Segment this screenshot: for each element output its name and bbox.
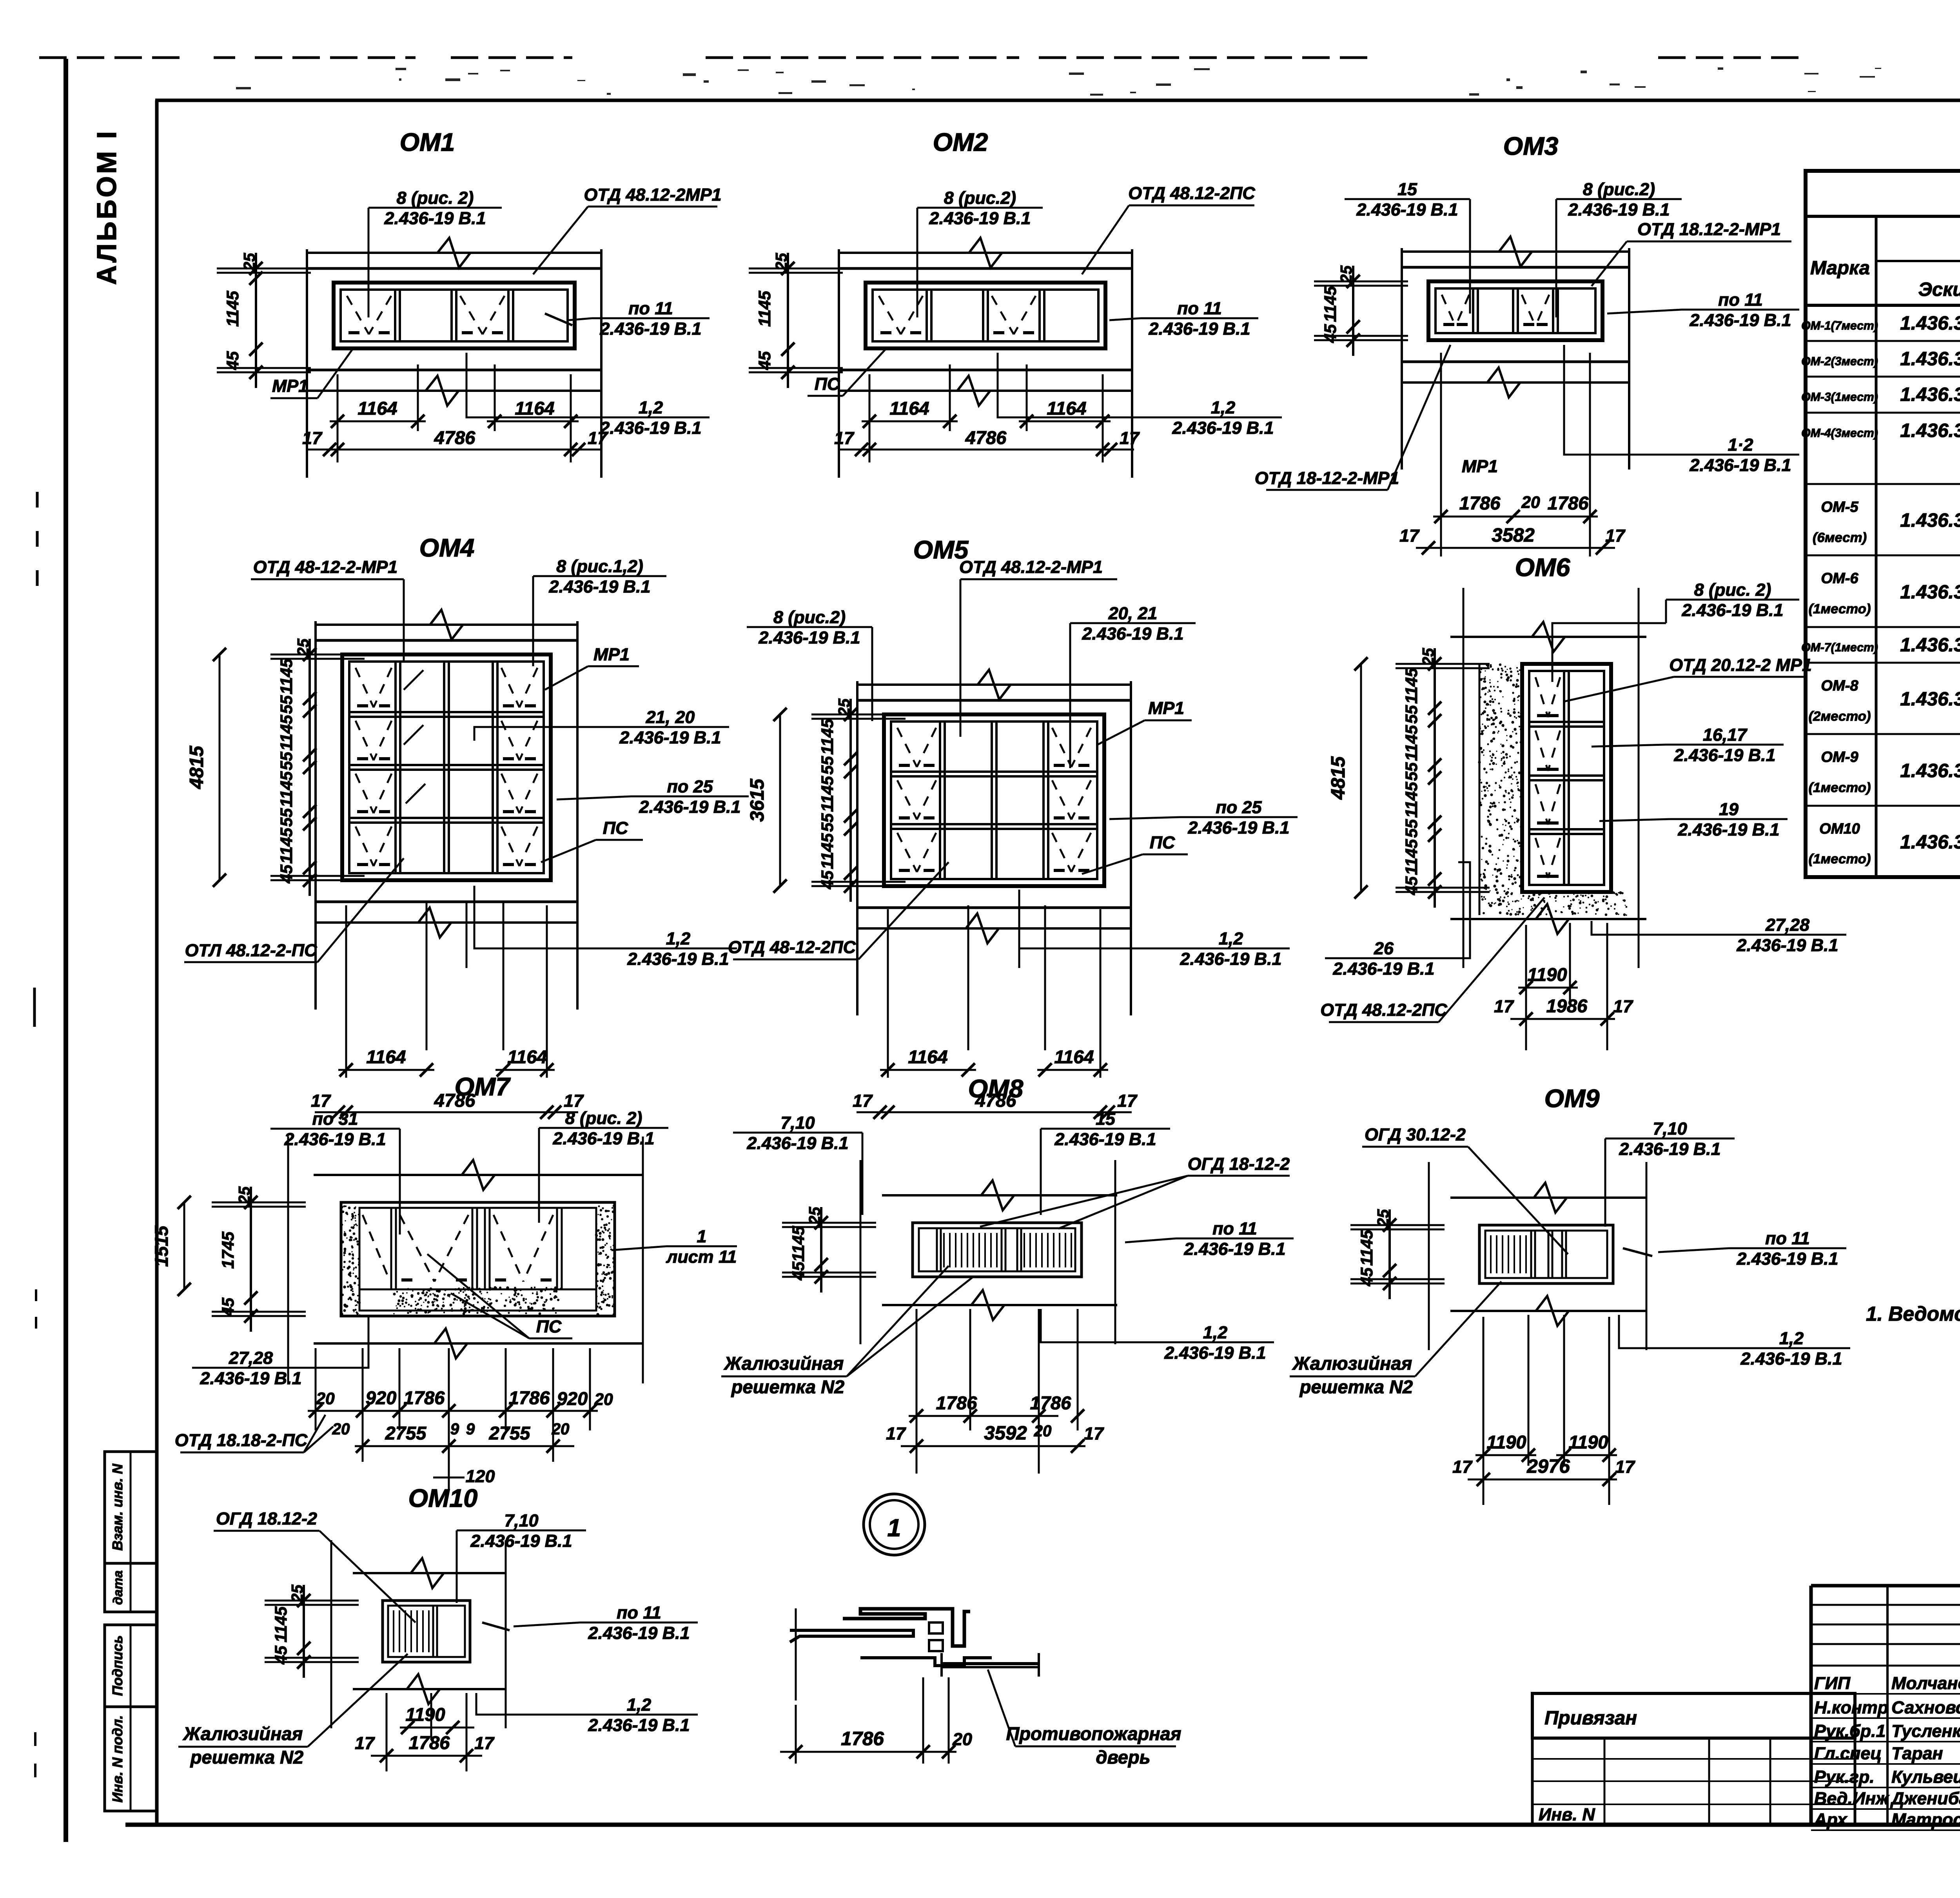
svg-text:1145: 1145	[277, 658, 296, 694]
svg-text:1145: 1145	[277, 827, 296, 864]
OM3 label 15	[1345, 198, 1470, 200]
svg-text:8 (рис.2): 8 (рис.2)	[944, 188, 1016, 208]
OM1 label po 11 / 2.436-19 V.1	[592, 317, 710, 319]
OM1 bottom dimensions	[337, 374, 339, 462]
svg-text:2.436-19 В.1: 2.436-19 В.1	[619, 728, 721, 747]
svg-text:2.436-19 В.1: 2.436-19 В.1	[627, 949, 729, 969]
svg-text:8 (рис.1,2): 8 (рис.1,2)	[556, 557, 643, 576]
OM3 left dimension chain	[1352, 266, 1354, 356]
svg-text:Привязан: Привязан	[1544, 1707, 1637, 1729]
svg-text:Матрос: Матрос	[1891, 1810, 1960, 1829]
svg-text:3592: 3592	[984, 1422, 1027, 1444]
svg-text:17: 17	[311, 1091, 331, 1111]
svg-text:1·2: 1·2	[1728, 435, 1753, 455]
OM1 left dimension chain	[255, 253, 257, 388]
svg-text:1786: 1786	[841, 1728, 884, 1749]
OM8 louver grilles	[944, 1233, 997, 1267]
svg-text:17: 17	[1084, 1424, 1104, 1443]
svg-text:25: 25	[288, 1584, 306, 1603]
svg-text:55: 55	[277, 695, 296, 714]
OM2 left dimension chain	[787, 253, 789, 388]
svg-text:16,17: 16,17	[1703, 725, 1748, 745]
svg-text:Таран: Таран	[1891, 1744, 1943, 1763]
svg-text:25: 25	[772, 253, 790, 271]
svg-text:920: 920	[366, 1387, 396, 1408]
svg-text:20: 20	[1521, 493, 1540, 512]
svg-text:АЛЬБОМ I: АЛЬБОМ I	[91, 129, 122, 285]
svg-text:20, 21: 20, 21	[1108, 604, 1158, 623]
svg-text:1786: 1786	[509, 1387, 550, 1408]
svg-text:ОМ-1(7мест): ОМ-1(7мест)	[1801, 319, 1878, 332]
svg-text:ОМ3: ОМ3	[1503, 132, 1559, 160]
OM10 label 1,2	[580, 1714, 698, 1716]
svg-text:19: 19	[1719, 799, 1739, 819]
svg-text:17: 17	[588, 428, 608, 448]
window OM5 opening lines	[857, 699, 1132, 702]
OM1 label 1,2 / 2.436-19 V.1	[592, 417, 710, 419]
OM7 label 8 (ris. 2)	[539, 1127, 668, 1129]
OM8 bottom dimensions	[916, 1309, 918, 1474]
svg-text:по 11: по 11	[628, 299, 673, 318]
svg-text:Тусленко: Тусленко	[1891, 1721, 1960, 1741]
window OM2 opening lines	[838, 267, 1133, 270]
svg-text:55: 55	[1402, 819, 1421, 838]
svg-text:1145: 1145	[818, 718, 837, 755]
svg-text:(1место): (1место)	[1809, 602, 1871, 616]
svg-text:ОМ2: ОМ2	[933, 128, 988, 156]
svg-text:3615: 3615	[746, 779, 768, 822]
svg-text:17: 17	[886, 1424, 906, 1443]
svg-text:1: 1	[887, 1514, 901, 1542]
svg-text:25: 25	[1337, 265, 1355, 283]
svg-text:1145: 1145	[1321, 286, 1340, 322]
OM5 bottom dimensions	[887, 909, 889, 1078]
svg-text:1,2: 1,2	[1203, 1323, 1227, 1342]
OM6 concrete column stipple	[1478, 663, 1523, 915]
svg-text:1786: 1786	[1030, 1392, 1071, 1413]
window OM9 opening lines	[1450, 1196, 1646, 1199]
svg-text:55: 55	[277, 751, 296, 770]
svg-text:ОМ-9: ОМ-9	[1821, 749, 1858, 765]
window OM9 frame	[1479, 1225, 1613, 1283]
svg-text:ОТД 48-12-2-МР1: ОТД 48-12-2-МР1	[253, 557, 397, 577]
svg-text:17: 17	[564, 1091, 584, 1111]
svg-text:ОГД 18-12-2: ОГД 18-12-2	[1188, 1154, 1290, 1174]
svg-text:ОМ-4(3мест): ОМ-4(3мест)	[1801, 427, 1878, 440]
OM8 label 7,10	[733, 1132, 862, 1134]
svg-text:2.436-19 В.1: 2.436-19 В.1	[470, 1531, 572, 1551]
svg-text:20: 20	[952, 1729, 972, 1749]
svg-text:по 11: по 11	[1765, 1229, 1810, 1248]
svg-text:1786: 1786	[409, 1732, 450, 1753]
svg-text:(1место): (1место)	[1809, 852, 1871, 867]
svg-text:ОМ6: ОМ6	[1515, 553, 1571, 582]
OM5 left dimension chain	[849, 699, 852, 902]
svg-text:Взам. инв. N: Взам. инв. N	[110, 1463, 125, 1551]
svg-text:Марка: Марка	[1810, 257, 1870, 279]
svg-text:2.436-19 В.1: 2.436-19 В.1	[1673, 745, 1775, 765]
svg-text:1.436.3-21: 1.436.3-21	[1900, 312, 1960, 334]
svg-text:2.436-19 В.1: 2.436-19 В.1	[1689, 455, 1791, 475]
svg-text:2.436-19 В.1: 2.436-19 В.1	[1054, 1129, 1156, 1149]
svg-text:Н.контр: Н.контр	[1814, 1698, 1888, 1717]
OM2 label 8 (ris.2)	[917, 207, 1043, 209]
svg-text:1515: 1515	[151, 1225, 172, 1267]
svg-text:20: 20	[1034, 1422, 1052, 1440]
svg-text:1. Ведомость элементов крепл: 1. Ведомость элементов крепления окон см…	[1866, 1302, 1960, 1325]
svg-text:1164: 1164	[1054, 1046, 1094, 1067]
svg-text:1,2: 1,2	[639, 398, 663, 417]
svg-text:1190: 1190	[405, 1704, 445, 1725]
svg-text:1145: 1145	[277, 714, 296, 751]
svg-text:по 25: по 25	[1216, 798, 1262, 817]
svg-text:дверь: дверь	[1096, 1747, 1150, 1767]
OM6 label 27,28	[1729, 934, 1846, 936]
svg-text:Арх.: Арх.	[1814, 1810, 1852, 1829]
svg-text:Жалюзийная: Жалюзийная	[1292, 1353, 1412, 1374]
OM9 label 7,10	[1605, 1138, 1735, 1140]
svg-text:25: 25	[806, 1207, 824, 1225]
svg-text:2.436-19 В.1: 2.436-19 В.1	[1148, 319, 1250, 339]
svg-text:Противопожарная: Противопожарная	[1006, 1723, 1181, 1744]
svg-text:8 (рис. 2): 8 (рис. 2)	[1694, 580, 1771, 600]
svg-text:1.436.3-21: 1.436.3-21	[1900, 384, 1960, 405]
svg-text:ОТЛ 48.12-2-ПС: ОТЛ 48.12-2-ПС	[185, 941, 318, 960]
OM9 louver grille	[1491, 1235, 1526, 1273]
svg-text:решетка N2: решетка N2	[1299, 1376, 1413, 1397]
staff table empty row lines	[1811, 1604, 1960, 1606]
svg-text:17: 17	[853, 1091, 873, 1111]
svg-text:решетка N2: решетка N2	[731, 1376, 844, 1397]
svg-text:ОМ8: ОМ8	[968, 1074, 1024, 1103]
svg-text:1745: 1745	[219, 1231, 238, 1269]
svg-text:Рук.гр.: Рук.гр.	[1814, 1767, 1875, 1787]
svg-text:1145: 1145	[277, 771, 296, 807]
svg-text:55: 55	[818, 756, 837, 775]
svg-text:8 (рис. 2): 8 (рис. 2)	[397, 188, 474, 208]
svg-text:2.436-19 В.1: 2.436-19 В.1	[1332, 959, 1434, 979]
window OM10 frame	[383, 1601, 470, 1662]
svg-text:3582: 3582	[1492, 524, 1535, 546]
svg-text:1,2: 1,2	[666, 929, 690, 948]
svg-text:1164: 1164	[515, 398, 554, 419]
OM5 label 8 (ris.2) left	[747, 626, 872, 628]
svg-text:9: 9	[466, 1420, 475, 1438]
svg-text:ОТД 18.18-2-ПС: ОТД 18.18-2-ПС	[175, 1430, 308, 1450]
OM9 bottom dimensions	[1483, 1317, 1485, 1505]
window OM7 opening lines	[314, 1174, 643, 1176]
OM4 label 8 (ris.1,2)	[533, 575, 666, 577]
window OM3 opening lines	[1401, 266, 1630, 269]
OM2 label po 11	[1141, 317, 1258, 319]
svg-text:ОМ10: ОМ10	[408, 1484, 478, 1512]
svg-text:1145: 1145	[1402, 667, 1421, 704]
svg-text:4786: 4786	[965, 427, 1007, 448]
svg-text:2.436-19 В.1: 2.436-19 В.1	[552, 1129, 654, 1148]
OM6 label 19	[1670, 818, 1788, 820]
svg-text:26: 26	[1374, 939, 1394, 958]
svg-text:Эскиз: Эскиз	[1918, 279, 1960, 300]
svg-text:9: 9	[450, 1420, 459, 1438]
svg-text:2755: 2755	[489, 1423, 530, 1443]
window OM8 frame	[913, 1223, 1082, 1277]
svg-text:ПС: ПС	[815, 374, 840, 394]
svg-text:17: 17	[302, 428, 323, 448]
page border: top smudged dash line	[39, 56, 184, 59]
window OM1 opening lines	[306, 267, 602, 270]
svg-text:1.436.3-21: 1.436.3-21	[1900, 420, 1960, 441]
OM2 label 1,2	[1164, 417, 1282, 419]
svg-text:2.436-19 В.1: 2.436-19 В.1	[599, 319, 701, 339]
svg-text:27,28: 27,28	[229, 1348, 273, 1368]
OM6 left dimension chain	[1434, 648, 1436, 908]
window OM5 frame and panes	[884, 714, 1104, 886]
svg-text:ОТД 18.12-2-МР1: ОТД 18.12-2-МР1	[1637, 219, 1781, 239]
svg-text:1145: 1145	[1402, 839, 1421, 875]
svg-text:1145: 1145	[789, 1225, 808, 1262]
svg-text:ОМ-6: ОМ-6	[1821, 570, 1858, 587]
svg-text:17: 17	[1120, 428, 1140, 448]
svg-text:15: 15	[1397, 179, 1417, 199]
elements table outer frame	[1806, 171, 1960, 877]
OM9 label 1,2	[1733, 1347, 1850, 1349]
svg-text:20: 20	[594, 1390, 613, 1409]
svg-text:2976: 2976	[1526, 1456, 1570, 1477]
svg-text:2.436-19 В.1: 2.436-19 В.1	[1740, 1349, 1842, 1369]
svg-text:ОТД 18-12-2-МР1: ОТД 18-12-2-МР1	[1255, 468, 1399, 488]
left sidebar stamp boxes	[105, 1452, 157, 1563]
OM1 label 8 (ris.2) / 2.436-19 V.1	[368, 207, 502, 209]
svg-text:17: 17	[1117, 1091, 1138, 1111]
title block top line	[1811, 1584, 1960, 1588]
OM6 label 8 (ris. 2)	[1666, 599, 1799, 601]
svg-text:ОМ4: ОМ4	[419, 533, 475, 562]
svg-text:(2место): (2место)	[1809, 709, 1871, 724]
svg-text:ОГД 18.12-2: ОГД 18.12-2	[216, 1509, 317, 1528]
OM6 bottom dimensions	[1525, 925, 1527, 1050]
window OM4 frame and panes	[342, 654, 551, 880]
svg-text:по 25: по 25	[667, 777, 713, 796]
window OM7 sill stipple	[393, 1286, 562, 1315]
svg-text:2.436-19 В.1: 2.436-19 В.1	[1187, 818, 1289, 838]
svg-text:1164: 1164	[366, 1046, 406, 1067]
elements table column lines	[1875, 216, 1878, 877]
window OM6 frame and panes	[1522, 664, 1611, 892]
svg-text:17: 17	[1399, 526, 1420, 546]
svg-text:2.436-19 В.1: 2.436-19 В.1	[929, 208, 1031, 228]
svg-text:55: 55	[1402, 762, 1421, 781]
svg-text:1164: 1164	[908, 1046, 947, 1067]
fire door dimension 1786 20	[795, 1705, 797, 1764]
OM10 louver grille	[394, 1610, 429, 1652]
svg-text:ОТД 48.12-2ПС: ОТД 48.12-2ПС	[1320, 1000, 1447, 1020]
drawing frame	[155, 100, 159, 1825]
OM6 label 16,17	[1666, 744, 1784, 746]
OM5 label 1,2	[1172, 948, 1290, 950]
scan speckles	[236, 67, 1960, 96]
svg-text:21, 20: 21, 20	[646, 707, 695, 727]
svg-text:по 11: по 11	[1212, 1219, 1257, 1238]
fire door leaf plate	[942, 1662, 1040, 1665]
svg-text:2.436-19 В.1: 2.436-19 В.1	[1356, 200, 1458, 219]
svg-text:1145: 1145	[223, 290, 242, 327]
svg-text:2755: 2755	[385, 1423, 426, 1443]
window OM10 opening lines	[353, 1572, 506, 1574]
svg-text:4815: 4815	[186, 746, 207, 789]
window OM7 frame and panes	[341, 1202, 615, 1316]
OM7 label 27,28	[192, 1367, 310, 1369]
svg-text:2.436-19 В.1: 2.436-19 В.1	[1736, 1249, 1838, 1269]
svg-text:17: 17	[1494, 997, 1514, 1016]
OM3 label 1.2	[1682, 454, 1799, 456]
OM5 label po 25	[1180, 816, 1298, 818]
window OM4 opening lines	[315, 639, 578, 642]
svg-text:2.436-19 В.1: 2.436-19 В.1	[746, 1133, 848, 1153]
svg-text:ОМ9: ОМ9	[1544, 1084, 1600, 1113]
svg-text:1.436.3-21: 1.436.3-21	[1900, 581, 1960, 603]
left margin smudge marks	[36, 492, 39, 588]
window OM7 concrete side strips	[340, 1205, 361, 1317]
svg-text:17: 17	[1613, 997, 1633, 1016]
svg-text:1145: 1145	[1402, 781, 1421, 818]
svg-text:1,2: 1,2	[1779, 1329, 1804, 1348]
svg-text:(6мест): (6мест)	[1813, 530, 1867, 545]
svg-text:20: 20	[316, 1389, 335, 1408]
detail circle 1	[864, 1494, 925, 1555]
svg-text:2.436-19 В.1: 2.436-19 В.1	[1689, 310, 1791, 330]
svg-text:1,2: 1,2	[627, 1695, 651, 1715]
svg-text:2.436-19 В.1: 2.436-19 В.1	[1180, 949, 1281, 969]
svg-text:1164: 1164	[507, 1046, 547, 1067]
svg-text:2.436-19 В.1: 2.436-19 В.1	[758, 628, 860, 647]
window OM1 frame and panes	[334, 283, 575, 348]
svg-text:120: 120	[466, 1467, 495, 1486]
svg-text:Жалюзийная: Жалюзийная	[724, 1353, 844, 1374]
svg-text:1786: 1786	[1459, 493, 1501, 513]
svg-text:55: 55	[277, 808, 296, 827]
svg-text:1.436.3-21: 1.436.3-21	[1900, 348, 1960, 370]
svg-text:1145: 1145	[818, 833, 837, 869]
svg-text:ОТД 48.12-2ПС: ОТД 48.12-2ПС	[1128, 183, 1255, 203]
staff table verticals	[1809, 1586, 1813, 1825]
svg-text:решетка N2: решетка N2	[190, 1747, 303, 1767]
svg-text:Вед.Инж: Вед.Инж	[1814, 1789, 1889, 1808]
svg-text:2.436-19 В.1: 2.436-19 В.1	[639, 797, 740, 817]
svg-text:ОМ7: ОМ7	[455, 1072, 511, 1101]
OM7 label po 31	[270, 1128, 400, 1130]
svg-text:17: 17	[1452, 1457, 1473, 1477]
svg-text:17: 17	[1615, 1457, 1635, 1477]
svg-text:8 (рис. 2): 8 (рис. 2)	[565, 1108, 642, 1128]
svg-text:ОМ-7(1мест): ОМ-7(1мест)	[1801, 641, 1878, 654]
svg-text:Молчанов: Молчанов	[1891, 1673, 1960, 1693]
svg-text:ПС: ПС	[603, 818, 628, 838]
OM4 slash marks in middle panes	[404, 670, 423, 690]
privyazan sub table	[1532, 1738, 1855, 1825]
svg-text:1164: 1164	[358, 398, 397, 419]
svg-text:55: 55	[1402, 705, 1421, 724]
svg-text:ОМ-5: ОМ-5	[1821, 499, 1858, 515]
svg-text:2.436-19 В.1: 2.436-19 В.1	[1172, 418, 1274, 438]
svg-text:1190: 1190	[1568, 1432, 1608, 1452]
window OM8 opening lines	[882, 1194, 1117, 1196]
OM8 left dimension chain	[820, 1207, 822, 1293]
svg-text:17: 17	[474, 1733, 495, 1753]
svg-text:Жалюзийная: Жалюзийная	[183, 1723, 303, 1744]
svg-text:8 (рис.2): 8 (рис.2)	[1583, 179, 1655, 199]
svg-text:по 11: по 11	[1718, 290, 1763, 310]
svg-text:1786: 1786	[1548, 493, 1589, 513]
OM8 label po 11	[1176, 1238, 1294, 1240]
svg-text:17: 17	[1605, 526, 1626, 546]
svg-text:МР1: МР1	[272, 376, 308, 396]
svg-text:1986: 1986	[1546, 995, 1588, 1016]
svg-text:1: 1	[697, 1227, 707, 1246]
svg-text:ОМ10: ОМ10	[1819, 821, 1860, 837]
svg-text:7,10: 7,10	[780, 1113, 815, 1133]
svg-text:25: 25	[835, 698, 853, 716]
svg-text:Кульвец: Кульвец	[1891, 1767, 1960, 1787]
svg-text:2.436-19 В.1: 2.436-19 В.1	[1681, 600, 1783, 620]
svg-text:2.436-19 В.1: 2.436-19 В.1	[1164, 1343, 1266, 1363]
svg-text:1,2: 1,2	[1211, 398, 1235, 417]
svg-text:ОГД 30.12-2: ОГД 30.12-2	[1365, 1125, 1466, 1144]
svg-text:8 (рис.2): 8 (рис.2)	[773, 607, 846, 627]
svg-text:1145: 1145	[755, 290, 774, 327]
svg-text:1786: 1786	[404, 1387, 445, 1408]
svg-text:Инв. N: Инв. N	[1539, 1805, 1595, 1824]
svg-text:2.436-19 В.1: 2.436-19 В.1	[1736, 935, 1838, 955]
OM4 label 1,2	[619, 948, 737, 950]
svg-text:1.436.3-21: 1.436.3-21	[1900, 634, 1960, 656]
svg-text:7,10: 7,10	[1653, 1119, 1687, 1138]
svg-text:МР1: МР1	[1462, 457, 1498, 476]
OM4 label po 25	[631, 796, 749, 798]
OM4 left dimension chain	[309, 639, 311, 896]
svg-text:920: 920	[557, 1388, 588, 1409]
svg-text:ОМ-2(3мест): ОМ-2(3мест)	[1801, 355, 1878, 368]
svg-text:Гл.спец: Гл.спец	[1814, 1744, 1882, 1763]
svg-text:по 31: по 31	[312, 1109, 358, 1129]
svg-text:2.436-19 В.1: 2.436-19 В.1	[200, 1369, 301, 1388]
svg-text:2.436-19 В.1: 2.436-19 В.1	[284, 1129, 386, 1149]
svg-text:1164: 1164	[1047, 398, 1086, 419]
svg-text:(1место): (1место)	[1809, 780, 1871, 795]
svg-text:ГИП: ГИП	[1814, 1673, 1851, 1693]
OM10 label 7,10	[457, 1530, 586, 1532]
svg-text:ОМ-3(1мест): ОМ-3(1мест)	[1801, 391, 1878, 404]
svg-text:1786: 1786	[936, 1392, 977, 1413]
OM10 bottom dimensions	[386, 1693, 388, 1771]
svg-text:1.436.3-21: 1.436.3-21	[1900, 831, 1960, 853]
svg-text:ОМ1: ОМ1	[400, 128, 455, 156]
OM3 label po 11	[1682, 309, 1799, 311]
page border: outer left edge line	[64, 59, 68, 1842]
svg-text:1145: 1145	[818, 776, 837, 812]
OM4 label 21, 20	[612, 726, 729, 728]
svg-text:45: 45	[219, 1297, 238, 1317]
svg-text:4786: 4786	[434, 427, 475, 448]
svg-text:ОТД 20.12-2 МР1: ОТД 20.12-2 МР1	[1669, 655, 1812, 675]
svg-text:1190: 1190	[1527, 964, 1567, 985]
svg-text:дата: дата	[111, 1570, 125, 1605]
svg-text:1.436.3-21: 1.436.3-21	[1900, 509, 1960, 531]
svg-text:25: 25	[1419, 648, 1437, 666]
svg-text:25: 25	[235, 1186, 253, 1204]
svg-text:1.436.3-21: 1.436.3-21	[1900, 688, 1960, 710]
svg-text:2.436-19 В.1: 2.436-19 В.1	[1082, 624, 1183, 644]
svg-text:ОТД 48.12-2-МР1: ОТД 48.12-2-МР1	[959, 557, 1103, 577]
